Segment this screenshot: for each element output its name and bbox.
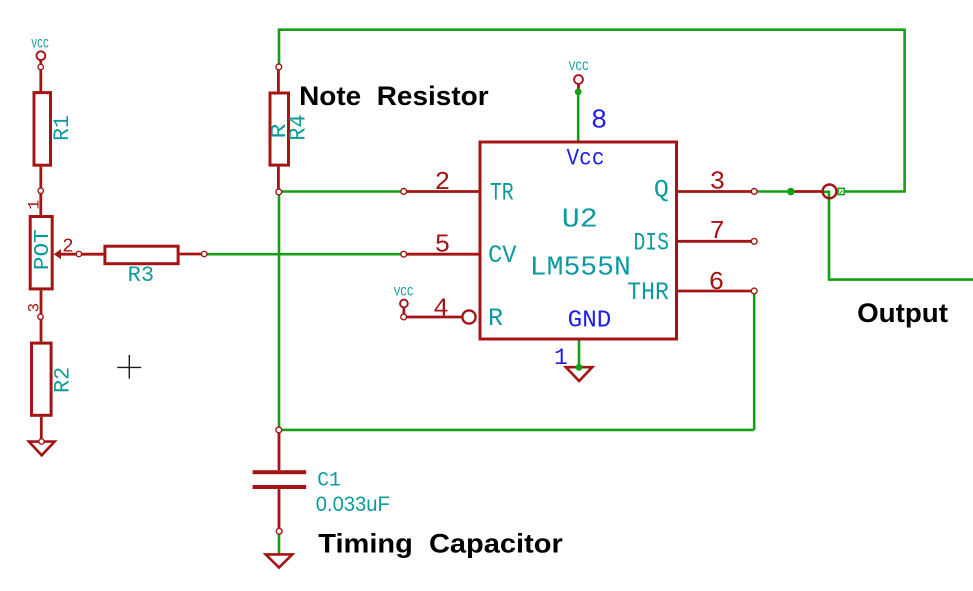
- svg-text:5: 5: [435, 229, 451, 259]
- svg-text:THR: THR: [627, 278, 669, 307]
- svg-text:DIS: DIS: [634, 228, 669, 257]
- svg-text:2: 2: [435, 167, 451, 197]
- svg-text:CV: CV: [488, 241, 517, 270]
- svg-text:R: R: [488, 304, 503, 333]
- svg-text:1: 1: [554, 345, 568, 371]
- svg-text:2: 2: [62, 235, 73, 257]
- svg-text:U2: U2: [562, 206, 598, 236]
- svg-text:TR: TR: [490, 178, 514, 207]
- svg-text:LM555N: LM555N: [530, 254, 631, 284]
- svg-text:1: 1: [26, 200, 44, 210]
- svg-text:3: 3: [26, 303, 44, 313]
- svg-text:GND: GND: [568, 308, 612, 335]
- svg-text:R4: R4: [286, 115, 312, 141]
- svg-text:R1: R1: [50, 115, 75, 141]
- svg-text:R2: R2: [50, 367, 75, 393]
- svg-text:3: 3: [710, 166, 726, 196]
- svg-text:Q: Q: [654, 176, 669, 205]
- svg-text:0.033uF: 0.033uF: [316, 492, 390, 516]
- svg-text:Vcc: Vcc: [567, 145, 605, 171]
- svg-text:4: 4: [433, 293, 449, 323]
- svg-text:6: 6: [709, 267, 725, 297]
- svg-text:VCC: VCC: [394, 285, 414, 300]
- svg-text:Timing Capacitor: Timing Capacitor: [318, 529, 563, 559]
- svg-text:VCC: VCC: [569, 59, 589, 74]
- svg-text:C1: C1: [317, 469, 341, 492]
- svg-text:Output: Output: [857, 298, 948, 328]
- svg-text:POT: POT: [32, 229, 55, 270]
- svg-text:8: 8: [591, 106, 607, 136]
- svg-text:VCC: VCC: [31, 37, 49, 52]
- svg-text:R3: R3: [128, 263, 155, 288]
- svg-text:Note Resistor: Note Resistor: [299, 81, 489, 111]
- svg-text:7: 7: [709, 216, 725, 246]
